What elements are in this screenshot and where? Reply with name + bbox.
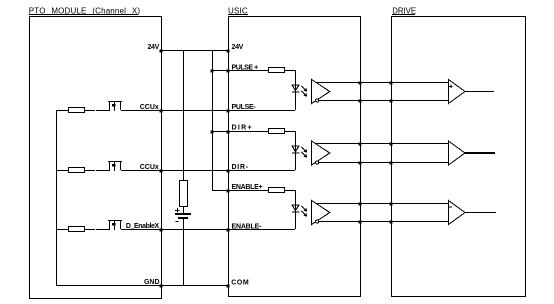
junction dot pair top at USIC edge row3 <box>359 203 362 206</box>
wire transistor through minus port row3 <box>121 229 295 230</box>
line receiver A3 (DRIVE) <box>449 201 466 225</box>
port dot minus at USIC edge row1 <box>227 110 230 113</box>
wire pair top row1 <box>316 82 448 83</box>
junction dot 24V rail row1 <box>211 70 214 73</box>
wire PTO left rail <box>56 110 57 285</box>
resistor R filter (vertical) <box>179 180 188 207</box>
svg-text:ENABLE+: ENABLE+ <box>232 184 263 191</box>
resistor R2b (USIC) <box>268 128 285 134</box>
wire pair top row3 <box>316 203 448 204</box>
transistor Q3 <box>108 220 122 230</box>
inversion bubble U2 <box>316 161 319 164</box>
PTO module box <box>29 16 162 299</box>
junction dot pair top at DRIVE edge row3 <box>390 203 393 206</box>
inversion bubble U1 <box>316 99 319 102</box>
wire transistor through minus port row2 <box>121 170 295 171</box>
wire 24V from PTO to USIC <box>161 50 228 51</box>
USIC title underline <box>228 14 248 15</box>
wire LED vertical row2 <box>295 131 296 170</box>
plus marking A1 <box>449 85 452 88</box>
resistor R3b (USIC) <box>268 187 285 193</box>
plus marking A3 <box>449 206 452 207</box>
wire resistor to LED row1 <box>284 70 296 71</box>
PTO title underline <box>29 14 138 15</box>
resistor R2a (PTO) <box>68 167 85 173</box>
wire gap to transistor row2 <box>96 170 110 171</box>
port dot minus at PTO edge row2 <box>160 170 163 173</box>
DRIVE box <box>391 16 526 297</box>
wire gap to transistor row3 <box>96 229 110 230</box>
wire pair top row2 <box>316 143 448 144</box>
line receiver A2 (DRIVE) <box>449 141 466 165</box>
wire resistor to LED row3 <box>284 190 296 191</box>
junction dot pair top at USIC edge row2 <box>359 143 362 146</box>
wire rail to resistor row3 <box>56 229 68 230</box>
svg-text:DIR+: DIR+ <box>232 125 253 132</box>
junction dot pair bottom at DRIVE edge row1 <box>390 100 393 103</box>
light arrows opto3 <box>301 206 307 217</box>
DRIVE title underline <box>392 14 415 15</box>
port dot plus at USIC edge row2 <box>227 131 230 134</box>
USIC box <box>228 16 361 297</box>
svg-text:GND: GND <box>144 279 160 286</box>
wire resistor to gap row1 <box>84 110 95 111</box>
wire rail to resistor row2 <box>56 170 68 171</box>
resistor R1b (USIC) <box>268 67 285 73</box>
port dot GND at PTO edge <box>160 285 163 288</box>
capacitor minus label <box>176 221 179 222</box>
wire pair bottom row1 <box>319 100 448 101</box>
junction dot pair top at DRIVE edge row1 <box>390 82 393 85</box>
light arrows opto1 <box>301 86 307 97</box>
wire output row3 <box>465 212 496 213</box>
port dot minus at PTO edge row1 <box>160 110 163 113</box>
wire output row2 <box>465 152 495 154</box>
port dot plus at USIC edge row3 <box>227 190 230 193</box>
capacitor C1 top plate <box>175 213 191 215</box>
svg-text:24V: 24V <box>232 44 244 51</box>
LED D2 (optocoupler) <box>292 146 299 154</box>
wire capacitor to GND <box>183 219 184 285</box>
opto-transistor buffer U1 (USIC) <box>312 80 330 104</box>
wire resistor to capacitor <box>183 207 184 214</box>
svg-text:CCUx: CCUx <box>140 164 159 171</box>
capacitor C1 bottom plate <box>178 217 188 219</box>
wire resistor to LED row2 <box>284 131 296 132</box>
wire GND to COM <box>56 285 228 286</box>
svg-text:DIR-: DIR- <box>232 164 249 171</box>
light arrows opto2 <box>301 147 307 158</box>
wire gap to transistor row1 <box>96 110 110 111</box>
wire 24V drop to filter resistor <box>183 50 184 181</box>
wire plus row3 <box>212 190 268 191</box>
LED D1 (optocoupler) <box>292 85 299 93</box>
svg-text:DRIVE: DRIVE <box>392 6 416 15</box>
wire resistor to gap row3 <box>84 229 95 230</box>
junction dot pair top at DRIVE edge row2 <box>390 143 393 146</box>
wire pair bottom row2 <box>319 162 448 163</box>
junction dot pair bottom at USIC edge row1 <box>359 100 362 103</box>
svg-text:PTO MODULE (Channel X): PTO MODULE (Channel X) <box>29 6 141 15</box>
wire output row1 <box>465 91 494 92</box>
port dot COM at USIC edge <box>227 285 230 288</box>
port dot minus at USIC edge row2 <box>227 170 230 173</box>
line receiver A1 (DRIVE) <box>449 80 466 104</box>
inversion bubble U3 <box>316 220 319 223</box>
opto-transistor buffer U3 (USIC) <box>312 201 330 225</box>
wire resistor to gap row2 <box>84 170 95 171</box>
wire plus row1 <box>212 70 268 71</box>
transistor Q2 <box>108 161 122 171</box>
junction dot pair bottom at DRIVE edge row3 <box>390 221 393 224</box>
wire rail to resistor row1 <box>56 110 68 111</box>
wire transistor through minus port row1 <box>121 110 295 111</box>
wire 24V rail down to ENABLE+ <box>212 50 213 190</box>
capacitor plus label <box>175 208 180 212</box>
svg-text:CCUx: CCUx <box>140 104 159 111</box>
svg-text:COM: COM <box>231 279 249 286</box>
LED D3 (optocoupler) <box>292 205 299 213</box>
wire LED vertical row1 <box>295 70 296 110</box>
junction dot pair bottom at DRIVE edge row2 <box>390 162 393 165</box>
opto-transistor buffer U2 (USIC) <box>312 141 330 165</box>
resistor R1a (PTO) <box>68 107 85 113</box>
svg-text:24V: 24V <box>147 44 159 51</box>
wire pair bottom row3 <box>319 221 448 222</box>
resistor R3a (PTO) <box>68 226 85 232</box>
junction dot pair bottom at USIC edge row2 <box>359 162 362 165</box>
junction dot 24V rail row2 <box>211 131 214 134</box>
wire plus row2 <box>212 131 268 132</box>
wire LED vertical row3 <box>295 190 296 229</box>
svg-text:ENABLE-: ENABLE- <box>232 223 263 230</box>
svg-text:PULSE +: PULSE + <box>232 64 259 71</box>
junction dot pair top at USIC edge row1 <box>359 82 362 85</box>
port dot minus at USIC edge row3 <box>227 229 230 232</box>
svg-text:PULSE-: PULSE- <box>232 104 257 111</box>
port dot plus at USIC edge row1 <box>227 70 230 73</box>
svg-text:USIC: USIC <box>228 6 248 15</box>
port dot 24V at USIC edge <box>227 50 230 53</box>
port dot 24V at PTO edge <box>160 50 163 53</box>
transistor Q1 <box>108 101 122 111</box>
svg-text:D_EnableX: D_EnableX <box>126 223 160 230</box>
junction dot pair bottom at USIC edge row3 <box>359 221 362 224</box>
port dot minus at PTO edge row3 <box>160 229 163 232</box>
